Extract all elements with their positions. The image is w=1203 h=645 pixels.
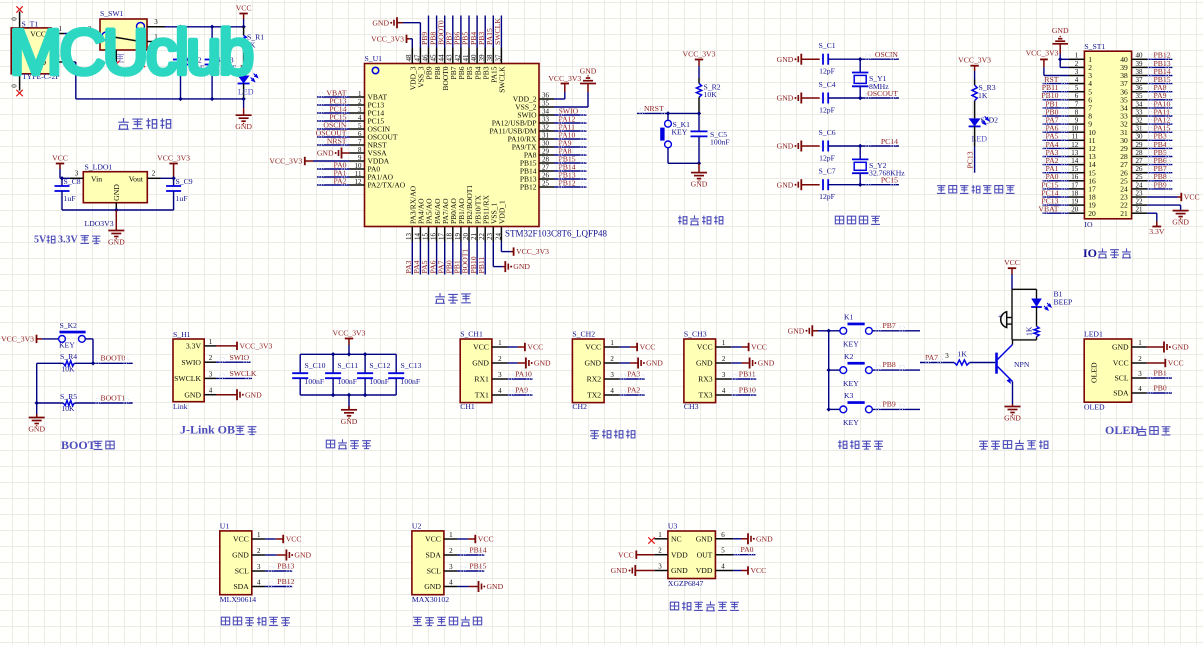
power VCC at CH3 pin1 [731,343,767,352]
svg-text:U3: U3 [668,522,678,531]
wire bus to K3 [829,408,840,410]
svg-text:35: 35 [542,100,550,108]
svg-text:2: 2 [498,355,502,363]
title keys circuit [838,440,883,449]
svg-text:35: 35 [1136,92,1144,100]
U1 pin 19 PB1/AO [454,198,466,242]
svg-text:VCC: VCC [1113,359,1129,368]
svg-text:2: 2 [209,354,213,362]
wire/net PB5 to ST1.28 [1147,148,1172,157]
main chip S_U1 STM32F103C8T6 [365,54,608,239]
svg-text:1uF: 1uF [176,194,188,203]
svg-text:100nF: 100nF [305,377,325,386]
resistor S_R4 10K [37,352,93,373]
ground GND at U1 pin23 [493,242,530,273]
svg-text:6: 6 [721,531,725,539]
svg-text:CH2: CH2 [572,402,587,411]
svg-text:S_CH3: S_CH3 [684,329,707,338]
svg-text:100nF: 100nF [401,377,421,386]
svg-text:S_C1: S_C1 [818,41,835,50]
LED S_D2 [969,116,999,147]
svg-text:26: 26 [542,172,550,180]
U1 pin 3 SCL [235,563,266,576]
svg-text:OLED: OLED [1084,402,1105,411]
svg-text:38: 38 [486,54,494,62]
ST1 pin 38 [1120,68,1147,80]
svg-text:GND: GND [691,180,708,189]
svg-text:OLED: OLED [1090,362,1099,383]
title crystal circuit [835,216,880,224]
svg-text:20: 20 [1071,206,1079,214]
wire bus to K1 [829,330,840,332]
ST1 pin 11 [1069,133,1096,145]
LDO pin 3 stub [60,169,83,178]
connector S_T1 TYPE-C-2P [11,20,59,81]
svg-text:U2: U2 [412,521,422,530]
svg-text:S_C13: S_C13 [401,361,422,370]
wire/net PA1 to ST1.15 [1043,164,1069,173]
header S_CH3 [684,329,716,411]
svg-text:SDA: SDA [233,582,249,591]
svg-text:34: 34 [542,108,550,116]
svg-text:43: 43 [446,54,454,62]
capacitor S_C3 100nF [205,27,237,99]
U1 pin 28 PB15 [520,156,554,168]
power VCC_3V3 at H1 pin1 [216,342,273,351]
svg-text:MLX90614: MLX90614 [220,595,256,604]
ST1 pin 33 [1120,108,1147,120]
S_SW1 pin 2 stub [88,25,100,34]
U1 pin 37 SWCLK [494,48,506,93]
wire/net PA6 to U1.16 [428,242,437,275]
ST1 pin 9 [1069,117,1092,129]
svg-text:10K: 10K [62,365,76,374]
ST1 pin 30 [1120,133,1147,145]
wire/net PB7 to U1.43 [445,16,454,48]
ST1 pin 10 [1069,125,1096,137]
svg-text:PB1: PB1 [1154,368,1167,377]
junction crystal at OSCIN [858,57,862,61]
U1 pin 33 PA12/USB/DP [492,116,554,128]
wire/net NRST to U1.7 [317,137,350,146]
svg-text:GND: GND [294,551,311,560]
resistor S_R5 10K [37,392,133,413]
no-ERC marker U3 pin1 [648,537,654,543]
wire/net BOOT0 [93,354,133,364]
CH3 pin 1 VCC [697,339,731,352]
svg-text:24: 24 [1136,181,1144,189]
svg-text:15: 15 [421,233,429,241]
svg-text:PA0: PA0 [741,545,754,554]
wire/net PC13 indicator [965,146,974,173]
svg-text:SCL: SCL [235,567,249,576]
junction crystal at OSCOUT [858,96,862,100]
ground GND at U1 pin47 [372,17,420,47]
svg-text:1: 1 [610,339,614,347]
U1 pin 46 PB9 [421,48,433,80]
ground GND at S_C6 [777,141,820,152]
svg-text:GND: GND [1172,343,1189,352]
svg-text:PB14: PB14 [469,545,486,554]
junction bus K2 [827,368,831,372]
svg-text:J-Link OB: J-Link OB [180,423,235,437]
wire/net PB0 to ST1.8 [1043,107,1069,116]
svg-text:1: 1 [358,90,362,98]
svg-text:GND: GND [777,180,794,189]
svg-text:48: 48 [405,54,413,62]
wire/net PB7 to ST1.26 [1147,164,1172,173]
svg-text:TX2: TX2 [587,391,601,400]
wire/net PB1 to U1.19 [453,242,462,275]
svg-text:GND: GND [788,326,805,335]
svg-text:GND: GND [1172,218,1189,227]
H1 pin 4 GND [184,387,216,400]
svg-text:PA10: PA10 [515,369,532,378]
svg-text:S_C11: S_C11 [337,361,358,370]
ground GND filter [341,395,358,426]
svg-text:Vin: Vin [91,175,102,184]
ground GND reset [691,163,708,188]
svg-text:RX2: RX2 [587,375,602,384]
resistor 1K at base [920,350,995,366]
wire alarm top node [1012,289,1037,317]
svg-text:PA2/TX/AO: PA2/TX/AO [368,181,406,190]
no-ERC marker top of S_T1 [16,6,22,12]
wire/net PB15 to U1.28 [554,155,587,164]
svg-text:31: 31 [1136,125,1144,133]
svg-text:8: 8 [1075,108,1079,116]
svg-text:46: 46 [421,54,429,62]
ground GND of power circuit [235,99,252,131]
S_T1 pin 2 stub [51,54,64,63]
svg-text:23: 23 [1136,189,1144,197]
junction NRST/R2/C5 [697,111,701,115]
wire/net PA5 to ST1.11 [1043,132,1069,141]
svg-text:S_C10: S_C10 [305,361,326,370]
U1 pin 48 VDD_3 [405,48,417,91]
wire/net PB3 to U1.39 [477,16,486,48]
svg-text:2: 2 [449,547,453,555]
wire/net PB11 at CH3 pin3 [731,369,756,379]
svg-text:25: 25 [542,180,550,188]
wire/net PB6 to U1.42 [453,16,462,48]
regulator S_LDO1 LDO3V3 [83,163,147,228]
U3 pin 3 GND [654,563,688,576]
svg-text:2: 2 [610,355,614,363]
svg-text:20: 20 [462,233,470,241]
power VCC top [236,4,252,27]
capacitor S_C1 12pF [818,41,860,75]
svg-text:S_ST1: S_ST1 [1084,42,1105,51]
ground GND at U3 pin6 [733,533,773,544]
U1 pin 23 VSS_1 [486,202,498,241]
title main chip [435,293,471,303]
capacitor S_C12 100nF [357,354,390,395]
svg-text:S_C9: S_C9 [176,177,193,186]
svg-text:11: 11 [1071,133,1078,141]
svg-text:CH3: CH3 [684,402,699,411]
svg-text:21: 21 [1136,206,1144,214]
svg-text:44: 44 [438,54,446,62]
ST1 pin 21 [1120,206,1147,218]
svg-text:VCC_3V3: VCC_3V3 [157,154,190,163]
svg-text:10: 10 [1071,125,1079,133]
wire/net BOOT0 to U1.44 [436,16,445,48]
wire/net PC13 to ST1.19 [1041,197,1068,206]
capacitor S_C6 12pF [818,128,860,162]
svg-text:9: 9 [1075,117,1079,125]
U1 pin 45 PB8 [430,48,442,80]
svg-text:8MHz: 8MHz [869,82,889,91]
svg-text:5: 5 [721,547,725,555]
svg-text:3: 3 [209,370,213,378]
S_T1 pin 0 bottom [11,74,20,91]
wire/net BOOT1 [96,394,129,404]
svg-text:VCC: VCC [527,343,543,352]
svg-text:NRST: NRST [644,104,664,113]
svg-text:PB12: PB12 [520,183,537,192]
junction bus K3 [827,407,831,411]
U1 pin 24 VDD_1 [494,200,506,241]
wire/net PA4 to U1.14 [412,242,421,275]
svg-text:3: 3 [610,371,614,379]
power VCC at CH1 pin1 [508,343,544,352]
svg-text:S_CH1: S_CH1 [460,329,483,338]
svg-text:VCC: VCC [751,566,767,575]
svg-text:GND: GND [758,359,775,368]
wire/net OSCIN to U1.5 [317,121,350,130]
svg-text:GND: GND [671,566,688,575]
wire K1 to C5 bottom [668,161,701,165]
svg-text:39: 39 [1136,60,1144,68]
title filter circuit [326,439,371,448]
wire T1.1 to SW1.2 [64,33,93,35]
U2 pin 1 VCC [425,531,457,544]
svg-text:GND: GND [424,582,441,591]
wire/net PA12 to U1.33 [554,115,587,124]
svg-text:GND: GND [1004,414,1021,423]
wire/net PA7 alarm [925,353,943,362]
svg-text:5V: 5V [34,235,47,246]
svg-text:19: 19 [1071,198,1079,206]
switch S_SW1 [100,9,147,50]
svg-text:KEY: KEY [843,340,859,349]
svg-text:VCC: VCC [585,343,601,352]
junction filter top [331,352,367,356]
power VCC_3V3 at ST1 pin3 [1026,48,1069,75]
svg-text:12pF: 12pF [819,67,835,76]
U2 pin 3 SCL [427,563,458,576]
svg-text:K3: K3 [844,391,854,400]
svg-text:22: 22 [1136,198,1144,206]
svg-text:VCC: VCC [236,4,252,13]
U1 pin 11 PA1/AO [350,170,394,182]
CH2 pin 2 GND [584,355,619,368]
wire/net PA4 to ST1.12 [1043,140,1069,149]
svg-text:K2: K2 [844,352,854,361]
wire/net PA7 to ST1.9 [1043,116,1069,125]
power VCC_3V3 at U1 pin48 [371,34,412,47]
ground GND at CH1 pin2 [508,358,552,369]
wire/net PB10 at CH3 pin4 [731,385,756,395]
junction at C2 top [178,25,182,29]
svg-text:2: 2 [658,547,662,555]
U1 pin 36 VDD_2 [513,92,554,104]
svg-text:4: 4 [721,563,725,571]
svg-text:10K: 10K [62,404,76,413]
svg-text:3: 3 [1138,370,1142,378]
svg-text:22: 22 [478,233,486,241]
svg-text:GND: GND [232,551,249,560]
junction C2 bottom [178,97,182,101]
svg-text:PA9: PA9 [515,385,528,394]
svg-text:S_K2: S_K2 [60,321,78,330]
ST1 pin 20 [1069,206,1096,218]
title module MLX90614 [221,617,290,626]
svg-text:38: 38 [1136,68,1144,76]
svg-text:GND: GND [245,390,262,399]
svg-text:SWIO: SWIO [230,353,250,362]
LED of alarm [1031,289,1051,310]
svg-text:GND: GND [184,390,201,399]
svg-text:OUT: OUT [697,550,713,559]
LED1 pin 3 SCL [1114,370,1146,383]
wire/net PA0 to U1.10 [317,161,350,170]
power VCC at U2 pin1 [457,535,493,544]
svg-text:NC: NC [671,534,682,543]
CH2 pin 3 RX2 [587,371,620,384]
svg-text:42: 42 [454,54,462,62]
title program run indicator [937,185,1014,193]
wire/net PA12 to ST1.32 [1147,116,1172,125]
U3 pin 2 VDD [654,547,688,560]
ST1 pin 28 [1120,149,1147,161]
svg-text:VCC: VCC [425,535,441,544]
title reset circuit [678,215,723,224]
svg-text:39: 39 [478,54,486,62]
wire/net PA7 to U1.17 [436,242,445,275]
wire/net PB3 to ST1.30 [1147,132,1172,141]
ST1 pin 27 [1120,157,1147,169]
U1 pin 14 PA4/AO [413,198,425,242]
svg-text:31: 31 [542,132,550,140]
svg-text:Vout: Vout [129,175,144,184]
U1 pin 22 PB11/RX [478,195,490,242]
wire/net PB1 at LED1 [1147,368,1172,378]
wire/net PB8 to U1.45 [428,16,437,48]
header S_ST1 IO [1084,42,1131,229]
svg-text:S_CH2: S_CH2 [572,329,595,338]
svg-text:29: 29 [542,148,550,156]
wire/net PB12 to ST1.40 [1147,51,1172,60]
junction crystal at PC15 [858,183,862,187]
title J-Link OB port [180,423,256,437]
svg-text:VCC: VCC [1168,359,1184,368]
svg-text:GND: GND [534,359,551,368]
svg-text:GND: GND [696,359,713,368]
ground GND at CH2 pin2 [620,358,664,369]
svg-text:SWCLK: SWCLK [230,369,257,378]
svg-text:VDD: VDD [671,550,688,559]
svg-text:VDD_1: VDD_1 [498,200,507,224]
display LED1 OLED [1084,330,1132,412]
wire/net PA9 to U1.30 [554,139,587,148]
svg-text:S_C6: S_C6 [818,128,835,137]
svg-text:24: 24 [494,233,502,241]
wire/net PB8 to ST1.25 [1147,172,1172,181]
power VCC at U3 pin2 [618,550,654,559]
svg-text:GND: GND [580,66,597,75]
LDO gnd pin [115,203,117,210]
svg-text:10K: 10K [704,90,718,99]
LED D1 [238,63,258,99]
svg-text:IO: IO [1084,220,1093,229]
ST1 pin 6 [1069,92,1092,104]
wire/net PA2 at CH2 pin4 [620,385,645,395]
ST1 pin 3 [1069,68,1092,80]
ground GND at ST1 pin22 [1147,205,1189,227]
crystal S_Y2 32.768KHz [852,146,905,185]
power VCC_3V3 filter [333,329,366,355]
ST1 pin 36 [1120,84,1147,96]
svg-text:20: 20 [1088,209,1096,218]
wire buzzer bottom [1011,324,1013,340]
svg-text:BOOT0: BOOT0 [101,354,126,363]
power VCC_3V3 at U1 pin9 VDDA [269,157,349,166]
svg-text:26: 26 [1136,165,1144,173]
H1 pin 2 SWIO [181,354,216,367]
svg-text:3: 3 [449,563,453,571]
resistor S_R1 1K [241,27,264,76]
svg-text:KEY: KEY [843,418,859,427]
U1 pin 31 PA10/RX [508,132,554,144]
svg-text:14: 14 [1071,157,1079,165]
U1 pin 18 PB0/AO [446,198,458,242]
wire/net PA10 to U1.31 [554,131,587,140]
svg-text:40: 40 [470,54,478,62]
wire/net PC14 to U1.3 [317,105,350,114]
ST1 pin 15 [1069,165,1096,177]
svg-text:SDA: SDA [1113,389,1129,398]
svg-text:VCC_3V3: VCC_3V3 [333,329,366,338]
svg-text:S_H1: S_H1 [173,330,191,339]
wire filter bottom rail [300,394,396,396]
svg-text:S_C4: S_C4 [818,80,835,89]
svg-text:S_LDO1: S_LDO1 [85,163,113,172]
svg-text:1K: 1K [1025,326,1034,336]
wire/net PB9 to U1.46 [420,16,429,48]
svg-text:VCC_3V3: VCC_3V3 [1,335,34,344]
svg-text:PB9: PB9 [1154,180,1167,189]
svg-text:S_C7: S_C7 [818,167,835,176]
svg-text:33: 33 [1136,108,1144,116]
svg-text:4: 4 [449,579,453,587]
svg-text:PB15: PB15 [469,561,486,570]
S_SW1 bottom pins [116,50,142,62]
svg-text:1K: 1K [978,91,988,100]
capacitor S_C2 100nF [173,27,204,99]
svg-text:1: 1 [1138,339,1142,347]
wire/net PB8 [872,360,920,370]
svg-text:4: 4 [1138,385,1142,393]
U1 pin 13 PA3/RX/AO [405,185,417,241]
svg-text:S_R5: S_R5 [60,392,77,401]
svg-text:PA3: PA3 [627,369,640,378]
svg-text:19: 19 [454,233,462,241]
svg-text:S_U1: S_U1 [365,54,383,63]
wire LDO ground rail [62,208,174,212]
wire/net PB13 at U1 pin3 [265,561,294,571]
